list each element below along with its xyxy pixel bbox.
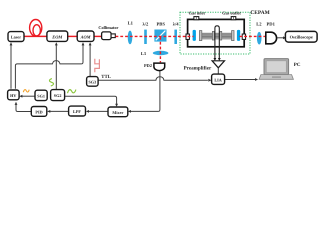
wire preamp to LIA	[217, 68, 219, 74]
PC laptop screen	[264, 59, 289, 75]
waveplate lambda/2	[144, 30, 147, 44]
lens L2	[257, 32, 262, 45]
svg-text:λ/4: λ/4	[173, 21, 180, 26]
waveplate lambda/4	[174, 30, 177, 44]
svg-text:CEPAM: CEPAM	[250, 10, 269, 16]
oscilloscope box	[285, 31, 317, 42]
beam PBS reflection down	[159, 37, 161, 62]
microphone fork	[215, 26, 219, 58]
lens L1	[128, 31, 133, 45]
wire SG3 to AOM pin2	[89, 45, 91, 76]
wire PD1 to Oscilloscope	[277, 37, 283, 39]
svg-text:TTL: TTL	[101, 74, 111, 80]
svg-text:PC: PC	[294, 62, 301, 68]
PID box	[31, 107, 47, 117]
svg-text:SG3: SG3	[88, 79, 96, 84]
svg-text:L3: L3	[141, 51, 147, 56]
mirror right	[237, 30, 240, 41]
svg-text:LIA: LIA	[214, 77, 221, 82]
wire SG3 to LIA (hop over PD2 line)	[98, 77, 207, 80]
gas outlet port	[231, 17, 236, 20]
svg-text:PID: PID	[35, 109, 42, 114]
wire LIA to PC	[225, 79, 255, 81]
LPF box	[69, 106, 86, 116]
wire SG1 to HV	[22, 95, 35, 97]
wire SG2 to EOM	[55, 45, 57, 89]
svg-text:Gas outlet: Gas outlet	[222, 10, 241, 15]
resonator tube fill	[202, 33, 232, 40]
svg-text:Gas inlet: Gas inlet	[189, 10, 206, 15]
PBS cube	[154, 30, 166, 42]
LIA box	[212, 74, 225, 84]
enclosure CEPAM dotted green box	[180, 12, 250, 54]
mixer box	[108, 107, 128, 117]
PC laptop base	[259, 75, 293, 80]
sine symbol green vertical (SG2 to EOM)	[49, 79, 53, 86]
EOM box	[47, 31, 68, 41]
svg-text:L2: L2	[256, 21, 262, 26]
svg-text:EOM: EOM	[51, 34, 63, 39]
wire HV to AOM pin1 (with hop over SG2-EOM line)	[15, 45, 83, 89]
svg-text:PD2: PD2	[144, 63, 152, 68]
resonator inner plate left	[212, 31, 214, 40]
window right	[242, 34, 245, 39]
collimator body	[102, 32, 112, 40]
fiber AOM to collimator	[94, 35, 102, 37]
resonator tube lines	[202, 33, 232, 39]
wire HV to Laser	[10, 45, 12, 89]
SG2 box	[51, 90, 65, 101]
AOM box	[77, 31, 94, 41]
wire PD2 to Mixer RF	[131, 70, 160, 111]
photodiode PD2	[154, 63, 165, 71]
mirror left	[193, 30, 196, 41]
svg-text:Preamplifier: Preamplifier	[184, 66, 212, 72]
svg-text:λ/2: λ/2	[142, 21, 149, 26]
svg-text:PD1: PD1	[266, 21, 275, 26]
svg-text:AOM: AOM	[80, 34, 92, 39]
gas inlet port tick	[195, 17, 197, 19]
beam free-space dashed	[116, 35, 194, 37]
wire PID to HV	[16, 105, 31, 112]
fiber coil outer loop	[30, 20, 42, 37]
sine symbol green horizontal (SG2 to Mixer)	[68, 90, 76, 94]
svg-text:LPF: LPF	[73, 109, 81, 114]
resonator end plate left	[199, 31, 201, 41]
svg-text:L1: L1	[128, 21, 134, 26]
preamplifier triangle U2	[212, 61, 224, 68]
svg-text:SG1: SG1	[37, 93, 45, 98]
photodiode PD1	[266, 32, 277, 44]
svg-text:HV: HV	[10, 93, 16, 98]
fiber EOM to AOM	[68, 35, 77, 37]
laser box	[8, 32, 24, 42]
SG3 box	[87, 77, 99, 87]
TTL square wave symbol red	[95, 59, 100, 72]
fiber from Laser	[24, 35, 47, 37]
SG1 box	[35, 90, 47, 100]
fiber coil inner loop	[33, 25, 40, 36]
svg-text:Laser: Laser	[11, 34, 21, 39]
cell body	[188, 19, 245, 46]
lens L3	[153, 51, 169, 55]
sine symbol orange (SG1 drive)	[23, 90, 29, 93]
wire SG2 to Mixer LO	[65, 96, 117, 104]
wire Mixer to LPF	[89, 110, 108, 112]
svg-text:PBS: PBS	[156, 21, 165, 26]
window left	[186, 34, 189, 39]
svg-text:Collimator: Collimator	[98, 25, 118, 30]
wire LPF to PID	[50, 110, 69, 112]
collimator nose	[111, 34, 115, 38]
svg-text:Oscilloscope: Oscilloscope	[290, 35, 313, 40]
resonator end plate right	[232, 31, 234, 41]
svg-text:Mixer: Mixer	[112, 110, 123, 115]
svg-text:SG2: SG2	[54, 93, 62, 98]
HV box	[8, 90, 20, 100]
fork lead arrowheads	[214, 58, 217, 61]
resonator inner plate right	[220, 31, 222, 40]
gas inlet port	[194, 17, 199, 20]
gas outlet port tick	[233, 17, 235, 19]
